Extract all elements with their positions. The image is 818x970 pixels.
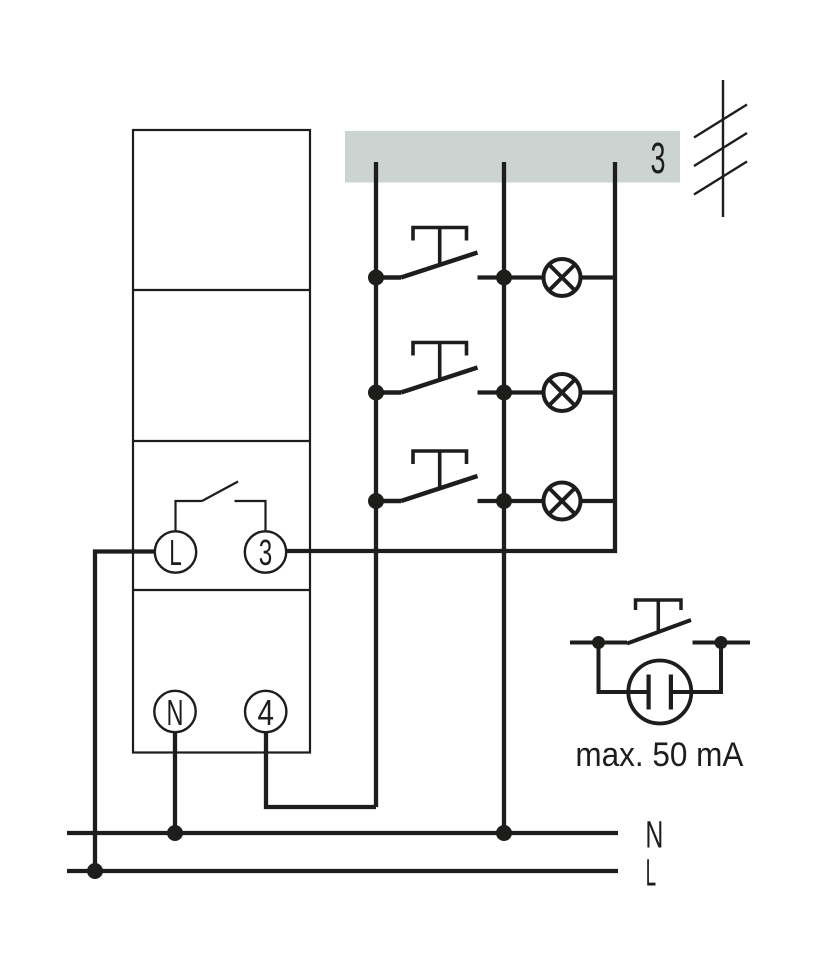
inset illuminated push button: left lead [570, 641, 627, 645]
svg-text:3: 3 [651, 134, 666, 183]
wire terminal 4 to bus 1 [266, 732, 376, 807]
wire lamp E1 to return bus [581, 275, 616, 279]
N line [67, 831, 618, 835]
L line [67, 869, 618, 873]
wire lamp E3 to return bus [581, 499, 616, 503]
junction bus1 row3 [368, 493, 384, 509]
lamp E2 [544, 374, 581, 411]
junction bus2 row2 [496, 385, 512, 401]
junction N lead / N line [167, 825, 183, 841]
push button S3 [376, 451, 478, 501]
wire terminal 3 to lamp return bus [287, 162, 616, 551]
lamp E1 [544, 259, 581, 296]
device section divider bottom [133, 589, 310, 591]
junction bus2 row3 [496, 493, 512, 509]
internal relay contact between L and 3 [176, 482, 266, 532]
svg-text:L: L [646, 853, 657, 895]
junction bus1 row2 [368, 385, 384, 401]
inset push button contact [627, 600, 691, 644]
svg-text:4: 4 [257, 692, 274, 733]
wire button S1 to lamp E1 [478, 275, 544, 279]
svg-text:N: N [167, 692, 184, 733]
terminal L [155, 531, 196, 572]
wire button S3 to lamp E3 [478, 499, 544, 503]
3-conductor hatch symbol [694, 80, 747, 217]
inset right lead [693, 641, 751, 645]
wire L feed (terminal L to L line) [95, 552, 155, 872]
wire lamp E2 to return bus [581, 390, 616, 394]
device outline (timer housing) [133, 130, 310, 753]
inset branch wire left [599, 643, 629, 693]
junction L feed / L line [87, 863, 103, 879]
device section divider middle [133, 440, 310, 442]
terminal 3 [245, 531, 286, 572]
junction bus2 row1 [496, 270, 512, 286]
glow lamp [628, 661, 691, 724]
svg-text:max. 50 mA: max. 50 mA [575, 736, 743, 774]
lamp E3 [544, 483, 581, 520]
wire bus 2 (neutral bus) [502, 162, 506, 833]
device section divider top [133, 289, 310, 291]
wire terminal N to N line [173, 732, 177, 833]
wire button S2 to lamp E2 [478, 390, 544, 394]
terminal 4 [245, 691, 286, 732]
svg-text:3: 3 [259, 532, 273, 573]
distribution bar (supply duct) [345, 131, 680, 183]
inset junction right [715, 636, 728, 649]
svg-text:N: N [645, 815, 663, 857]
junction bus 2 / N line [496, 825, 512, 841]
inset branch wire right [692, 643, 722, 693]
push button S1 [376, 228, 478, 278]
svg-text:L: L [169, 532, 182, 573]
push button S2 [376, 343, 478, 393]
wire bus 1 (push-button bus) [374, 162, 378, 807]
inset junction left [592, 636, 605, 649]
junction bus1 row1 [368, 270, 384, 286]
terminal N [154, 691, 195, 732]
